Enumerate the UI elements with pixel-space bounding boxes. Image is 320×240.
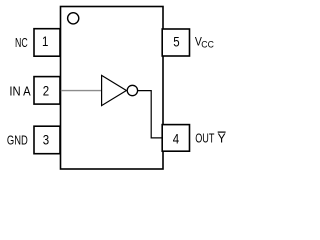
svg-text:IN A: IN A <box>9 84 31 99</box>
wire: pin 2 to inverter input <box>61 90 102 92</box>
svg-text:5: 5 <box>173 34 180 50</box>
pin 4 box <box>162 125 189 152</box>
svg-text:1: 1 <box>42 33 49 49</box>
svg-text:CC: CC <box>201 39 214 49</box>
svg-text:NC: NC <box>15 35 28 50</box>
package body <box>61 7 164 170</box>
svg-text:Y: Y <box>218 131 227 146</box>
wire: inverter output to pin 4 <box>138 91 162 138</box>
pin 5 box <box>162 29 189 56</box>
overline on Y of OUT label <box>218 131 226 133</box>
svg-text:GND: GND <box>7 132 28 147</box>
inverter output bubble <box>127 85 137 95</box>
pin 3 box <box>34 126 60 154</box>
pin-1 indicator circle <box>68 13 79 24</box>
svg-text:OUT: OUT <box>195 131 214 146</box>
pin 1 box <box>34 29 60 57</box>
pin 2 box <box>34 77 60 105</box>
svg-text:4: 4 <box>173 130 180 146</box>
inverter U1 triangle <box>102 75 127 105</box>
svg-text:2: 2 <box>43 82 50 98</box>
svg-text:3: 3 <box>43 132 50 148</box>
